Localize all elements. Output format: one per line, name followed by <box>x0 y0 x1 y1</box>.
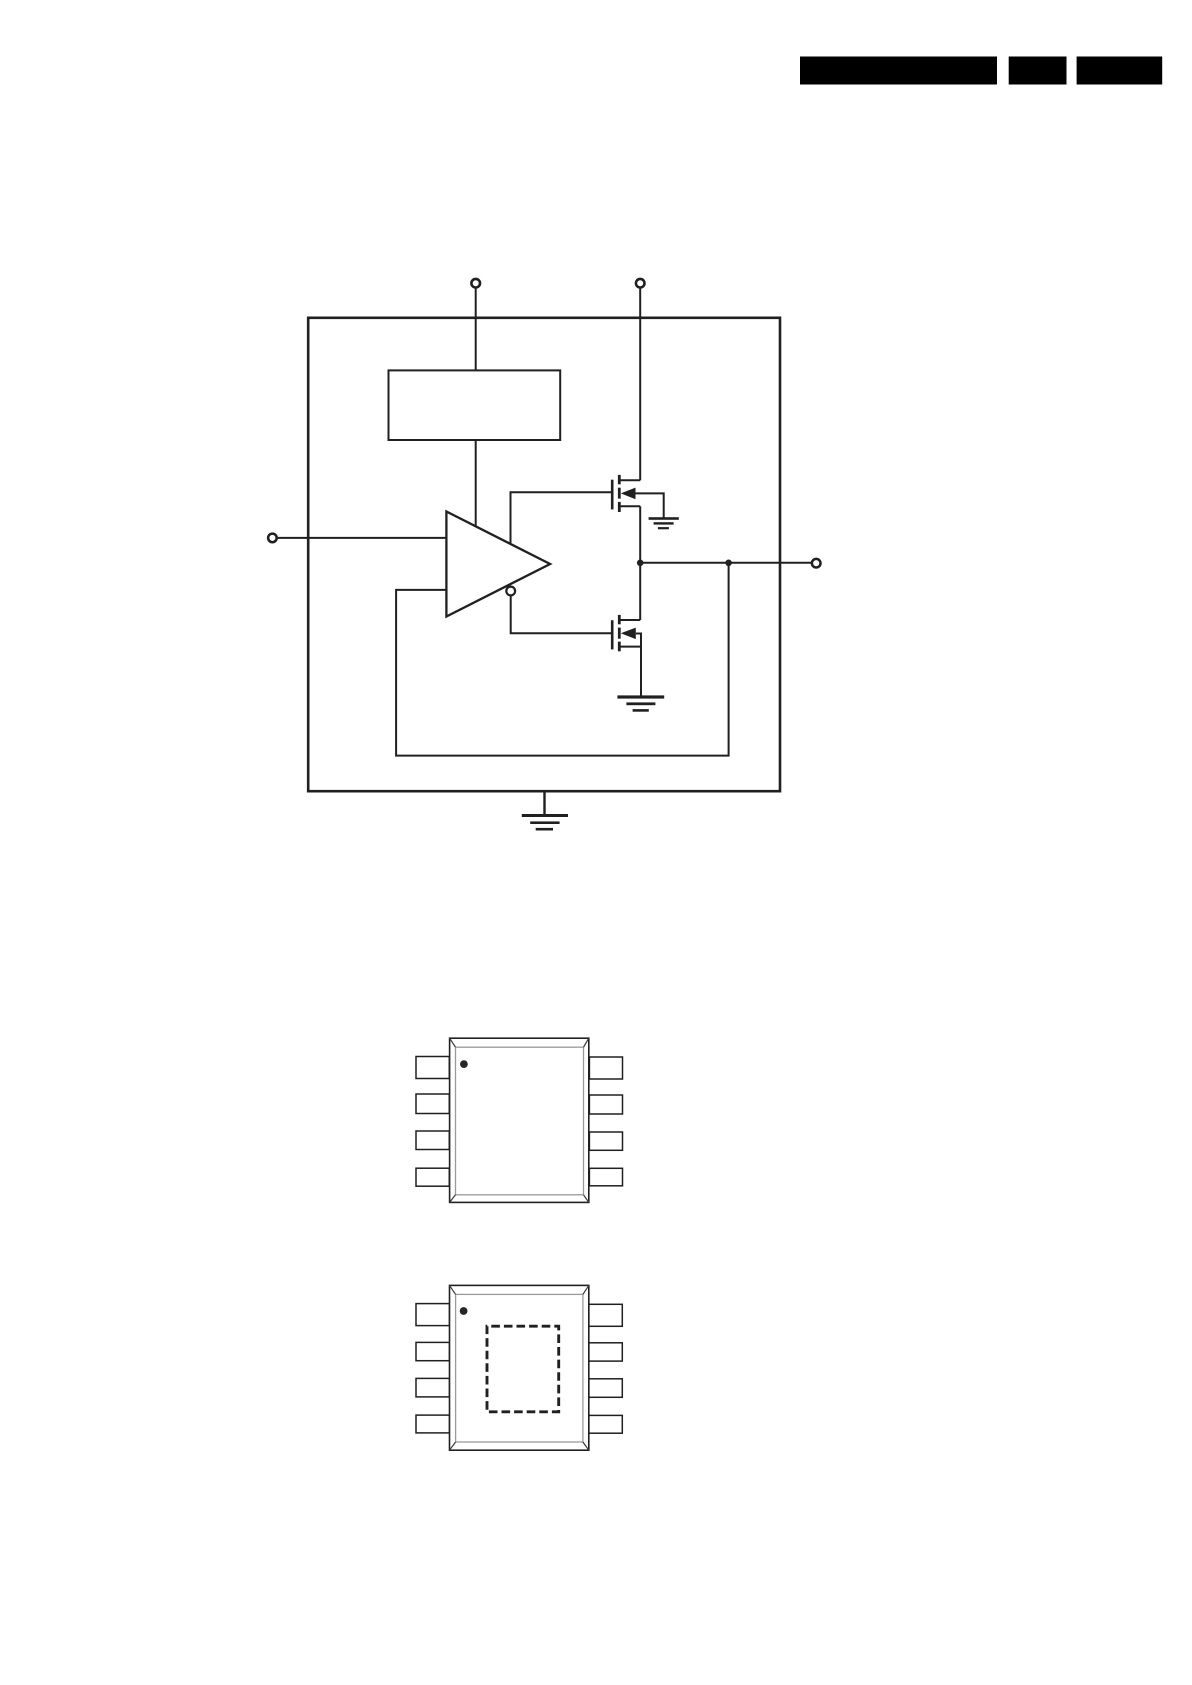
pin 2 (EP package) <box>416 1342 450 1360</box>
pin 1 (SOIC) <box>416 1057 449 1079</box>
terminal OUT (right pin circle) <box>812 559 821 568</box>
transistor Q1 (upper NMOS) <box>612 475 664 563</box>
ground (Q1 body ground) <box>649 517 679 529</box>
wire supply terminal to Q1 drain <box>639 288 641 480</box>
package SOIC-8 with exposed pad top view <box>416 1285 622 1450</box>
pin 5 (EP package) <box>589 1415 623 1433</box>
pin 3 (SOIC) <box>416 1131 449 1150</box>
wire bubble to Q2 gate <box>511 595 612 633</box>
pin 4 (SOIC) <box>416 1168 449 1186</box>
wire amplifier to Q1 gate <box>511 492 612 544</box>
pin 6 (EP package) <box>589 1379 623 1398</box>
pin 1 index dot (EP package) <box>460 1307 468 1315</box>
redacted title block bar 1 <box>800 57 997 85</box>
IC boundary box <box>308 318 780 791</box>
redacted title block bar 2 <box>1009 57 1067 85</box>
pin 2 (SOIC) <box>416 1094 449 1114</box>
pin 1 index dot (SOIC) <box>460 1060 468 1068</box>
pin 8 (SOIC) <box>589 1057 622 1079</box>
terminal supply (top-right pin circle) <box>636 279 645 288</box>
wire IN to amplifier non-inverting input <box>277 537 446 539</box>
inversion bubble on amplifier output <box>506 587 515 596</box>
EP package body inner bevel <box>456 1294 583 1442</box>
internal block (bias/control rectangle) <box>389 370 561 440</box>
SOIC bevel corner lines <box>450 1038 456 1047</box>
pin 4 (EP package) <box>416 1415 450 1433</box>
pin 7 (SOIC) <box>589 1095 622 1114</box>
ground (Q2 source ground) <box>617 695 664 711</box>
pin 1 (EP package) <box>416 1304 450 1326</box>
EP package body outline <box>450 1285 589 1450</box>
wire output node to OUT terminal <box>640 562 811 564</box>
terminal IN (left pin circle) <box>268 534 277 543</box>
node feedback junction on output line <box>725 560 732 567</box>
transistor Q2 (lower NMOS) <box>612 563 641 697</box>
op-amp U1 (driver amplifier triangle) <box>446 512 550 617</box>
pin 7 (EP package) <box>589 1343 623 1361</box>
pin 6 (SOIC) <box>589 1132 622 1150</box>
terminal VDD (top-left pin circle) <box>471 279 480 288</box>
EP package bevel corner lines <box>450 1285 456 1294</box>
ground (GND pin) <box>522 814 568 831</box>
SOIC body outline <box>450 1038 589 1202</box>
redacted title block bar 3 <box>1077 57 1163 85</box>
wire GND pin stub from box bottom <box>543 791 545 815</box>
pin 3 (EP package) <box>416 1378 450 1397</box>
exposed pad (dashed) <box>487 1326 559 1412</box>
pin 5 (SOIC) <box>589 1168 622 1186</box>
wire feedback from output node to inverting input <box>396 563 728 756</box>
package SOIC-8 top view <box>416 1038 623 1202</box>
wire VDD terminal to internal block and amplifier top <box>475 288 477 526</box>
node output junction at Q1 source / Q2 drain <box>637 560 644 567</box>
pin 8 (EP package) <box>589 1304 623 1326</box>
SOIC body inner bevel <box>456 1047 584 1195</box>
